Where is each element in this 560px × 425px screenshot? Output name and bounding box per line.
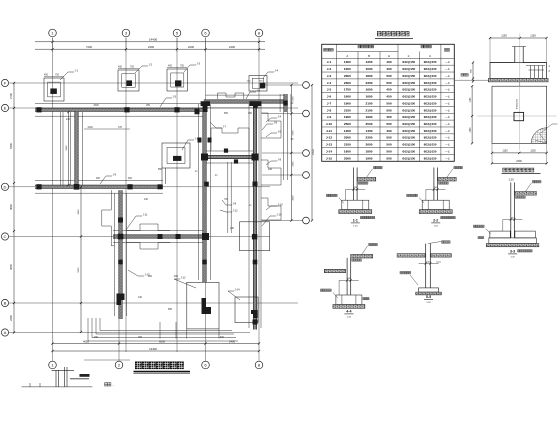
detail 5-5 wall upper [426,244,431,288]
svg-text:6000: 6000 [159,339,165,343]
svg-text:2700: 2700 [9,93,13,99]
isolated footing bottom right J-14 [235,297,258,323]
svg-text:Φ12@150: Φ12@150 [402,95,415,99]
strip footing outline S4 edges [35,180,163,193]
svg-text:2100: 2100 [366,101,373,105]
svg-text:J-9: J-9 [327,115,332,119]
axis bubble 4 bottom [202,361,210,369]
plan detail centerline horizontal [477,115,557,117]
svg-text:3600: 3600 [9,204,13,210]
label J-4 [263,69,279,79]
svg-text:700: 700 [224,198,229,201]
svg-text:3750: 3750 [293,130,295,136]
plan detail corner leader [541,124,558,133]
svg-text:Φ12@150: Φ12@150 [424,115,437,119]
svg-text:850: 850 [158,168,163,171]
detail 1-1 left leader label [339,198,344,204]
axis bubble D left [1,233,8,240]
strip footing S5 horizontal lower [113,235,207,238]
svg-text:J-13: J-13 [195,137,201,141]
column on V1-S4 junction [74,184,80,190]
strip footing S3 horizontal middle [203,155,257,158]
grid line axis B2 vertical x=119 bottom part [118,270,120,361]
detail 2-2 blinding hatched layer [419,210,452,214]
axis bubble 3 top [173,29,181,37]
svg-text:600: 600 [174,275,179,278]
svg-text:1150: 1150 [502,150,508,153]
svg-text:J-8: J-8 [278,158,282,162]
detail 5-5 blinding layer [416,292,442,295]
svg-text:450: 450 [248,112,253,115]
axis bubble 1 top [49,29,57,37]
strip footing V4 vertical far right short [284,94,287,112]
column on V2 junction S3 big [201,154,208,161]
plan small dimension texts [44,65,294,340]
strip footing outline V3 edges [249,104,261,328]
svg-text:Φ12@150: Φ12@150 [424,129,437,133]
svg-text:J-7: J-7 [223,125,227,129]
wall lines x=60 between S1 S4 [61,112,64,185]
label J-1 [60,69,79,81]
grid line axis 2 vertical x=126 [125,38,127,353]
svg-text:1:25: 1:25 [508,178,514,182]
svg-text:2500: 2500 [366,122,373,126]
svg-text:J-10: J-10 [278,203,284,207]
svg-text:2-2: 2-2 [433,219,438,223]
column on V3 y=262 [253,260,258,265]
svg-text:750: 750 [55,74,60,77]
svg-text:J-3: J-3 [327,74,332,78]
svg-text:J-11: J-11 [326,129,332,133]
svg-text:4950: 4950 [78,209,80,215]
svg-text:J-10: J-10 [277,213,283,217]
svg-text:2300: 2300 [516,160,522,163]
plan detail left dim [471,86,473,143]
column on S5 x=178 [176,234,181,239]
grid line axis 1 vertical x=52.5 [52,38,54,362]
grid line axis E horizontal y=303 [9,302,298,304]
svg-text:—①: —① [445,81,451,85]
svg-text:Φ12@150: Φ12@150 [402,88,415,92]
detail section blinding leader [463,79,488,81]
svg-text:J-14: J-14 [235,288,241,292]
svg-text:Φ12@150: Φ12@150 [424,74,437,78]
svg-text:14400: 14400 [149,38,158,42]
svg-text:J-3: J-3 [197,62,201,66]
detail 2-2 side dim line [425,189,427,200]
svg-text:J-14: J-14 [326,150,332,154]
strip footing outline V1 edges [71,112,83,185]
svg-text:Φ12@150: Φ12@150 [424,67,437,71]
top dimension line total 14400 [35,41,265,43]
plan detail bottom dims [492,152,547,154]
wall lines right edge below V4 [283,112,287,180]
label J-13 [182,137,200,151]
grid line axis C horizontal y=186.8 [9,186,270,188]
column on V3 junction S3 big [252,154,259,161]
svg-text:D: D [4,184,7,189]
svg-text:—①: —① [445,156,451,160]
svg-text:2000: 2000 [344,74,351,78]
svg-text:-: - [113,383,114,387]
isolated footing J-2 [118,70,139,91]
grid line axis B horizontal y=108 [9,107,298,109]
grid line axis A horizontal y=83 [9,82,298,84]
detail section ground line [455,79,463,81]
axis bubble 5 top [255,29,263,37]
svg-text:Φ12@150: Φ12@150 [402,115,415,119]
svg-text:2000: 2000 [344,136,351,140]
column on V5 y=262 [118,260,123,265]
svg-text:4050: 4050 [9,264,13,270]
svg-text:240: 240 [268,168,273,171]
svg-text:450: 450 [386,115,391,119]
svg-text:400: 400 [386,67,391,71]
axis bubble right r1 [303,82,310,89]
svg-text:2100: 2100 [344,108,351,112]
svg-text:1-1: 1-1 [353,219,358,223]
svg-text:—①: —① [445,74,451,78]
inner dim line left bay [68,112,70,185]
svg-text:Φ12@150: Φ12@150 [424,150,437,154]
svg-text:J-2: J-2 [327,67,332,71]
detail 3-3 left leader label [486,229,491,235]
detail 5-5 leaders [410,262,441,285]
grid line axis D horizontal y=236.5 [9,236,270,238]
svg-text:900: 900 [96,177,101,180]
label J-5 [160,95,177,108]
svg-text:500: 500 [386,136,391,140]
svg-text:240: 240 [144,198,149,201]
svg-text:1800: 1800 [366,150,373,154]
detail section column stem [512,47,526,63]
svg-text:Φ12@150: Φ12@150 [402,101,415,105]
svg-text:1900: 1900 [366,156,373,160]
svg-text:J-9: J-9 [113,173,117,177]
stepped outline above S2 [218,93,244,99]
label J-15 [128,270,150,277]
svg-text:J-12: J-12 [326,136,332,140]
svg-text:250: 250 [146,104,151,107]
strip footing outline S2 edges [206,95,285,108]
svg-text:Φ12@150: Φ12@150 [402,150,415,154]
detail 2-2 mid dimension [426,188,446,190]
svg-text:2400: 2400 [148,45,154,49]
svg-text:J-6: J-6 [327,95,332,99]
label J-6 [246,89,261,100]
plan detail centerline vertical [518,81,520,151]
wall lines x=228 between S3 S5 [228,162,231,233]
column on S4 right end x=160 [158,184,163,189]
svg-text:—①: —① [445,122,451,126]
svg-text:450: 450 [386,95,391,99]
svg-text:2300: 2300 [366,81,373,85]
right dimension line inner [290,85,292,221]
svg-text:Φ12@150: Φ12@150 [424,108,437,112]
label J-9 [100,173,117,185]
column on V3 y=236.7 [252,234,257,239]
svg-text:H: H [388,54,390,58]
column on V5 y=220 [118,218,123,223]
svg-text:J-5: J-5 [173,95,177,99]
detail 2-2 wall [434,168,438,201]
svg-text:1250: 1250 [470,127,472,133]
detail 2-2 bottom note [441,216,456,218]
detail 4-4 floor slab band [351,254,373,258]
svg-text:2400: 2400 [9,315,13,321]
svg-text:2300: 2300 [344,81,351,85]
svg-text:J-13: J-13 [326,143,332,147]
strip footing V1 vertical left [75,112,78,186]
axis bubble 2 top [122,29,130,37]
axis bubble C left [1,183,8,190]
column on S1 x=177 [174,107,179,112]
svg-text:850: 850 [224,112,229,115]
foundation table grid [322,44,455,161]
plan detail corner fan hatch [531,128,547,144]
strip footing outline V5 edges [115,193,127,316]
notes label [105,383,111,386]
svg-text:6600: 6600 [78,267,80,273]
svg-text:5400: 5400 [66,145,68,151]
stepped outline between V2 V3 above S3 [211,128,249,151]
column on S4 x=39 [36,184,41,189]
detail 3-3 footing stepped pad [489,231,536,243]
column junction S1-S2-V2 T-shape [201,101,210,112]
detail 4-4 mid dimension [339,279,359,281]
detail 1-1 bottom note [360,216,375,218]
svg-text:1900: 1900 [366,115,373,119]
svg-text:—①: —① [445,67,451,71]
column on V5-S5 junction [118,234,124,240]
svg-text:2200: 2200 [188,45,194,49]
label J-12 [174,276,196,289]
svg-text:J-4: J-4 [278,115,282,119]
svg-text:2400: 2400 [229,45,235,49]
detail 3-3 wall [511,182,515,238]
svg-text:Φ12@150: Φ12@150 [402,122,415,126]
detail 1-1 blinding hatched layer [339,210,372,214]
plan detail outer square [492,86,547,143]
svg-text:2250: 2250 [293,161,295,167]
svg-text:1900: 1900 [344,101,351,105]
detail 2-2 below-slab note [439,182,449,184]
detail 1-1 side dim line [345,189,347,200]
detail 4-4 slab leader label [362,246,368,255]
strip footing S2 horizontal upper right [204,100,286,103]
detail 4-4 blinding hatched layer [333,304,365,308]
svg-text:Φ12@150: Φ12@150 [402,81,415,85]
svg-text:Φ12@150: Φ12@150 [516,98,519,109]
detail 3-3 bottom note [518,250,533,252]
svg-text:—①: —① [445,150,451,154]
svg-text:1600: 1600 [366,95,373,99]
svg-text:1600: 1600 [344,150,351,154]
svg-text:370: 370 [118,126,123,129]
detail 3-3 floor slab band [514,192,536,196]
svg-text:5400: 5400 [9,143,13,149]
right dimension line outer total [311,85,313,221]
bottom-left detail bold label [70,374,90,379]
svg-text:1000: 1000 [366,67,373,71]
svg-text:—①: —① [445,108,451,112]
axis bubble A left [1,79,8,86]
svg-text:2500: 2500 [344,122,351,126]
svg-text:240: 240 [230,227,235,230]
svg-text:1400: 1400 [366,129,373,133]
detail 5-5 under-slab dimension [419,262,439,264]
detail 1-1 wall [354,168,358,201]
svg-text:750: 750 [180,65,185,68]
svg-text:3-3: 3-3 [510,250,515,254]
detail 2-2 floor slab band [438,177,457,181]
isolated footing J-1 [44,78,64,101]
svg-text:1200: 1200 [344,129,351,133]
label J-3 [184,62,201,73]
svg-text:—①: —① [445,115,451,119]
svg-text:—①: —① [445,95,451,99]
svg-text:J-11: J-11 [143,213,148,217]
svg-text:—①: —① [445,88,451,92]
svg-text:900: 900 [148,275,153,278]
detail 1-1 slab leader label [366,169,372,178]
svg-text:Φ12@150: Φ12@150 [424,122,437,126]
svg-text:—①: —① [445,136,451,140]
label J-8 [262,121,278,131]
svg-text:J-8: J-8 [233,202,237,206]
svg-text:2600: 2600 [366,143,373,147]
extension stubs under footings bottom [160,322,219,339]
svg-text:J-12: J-12 [233,209,239,213]
svg-text:Φ12@150: Φ12@150 [424,136,437,140]
detail section footing body [490,63,547,79]
detail section top dimension [490,37,547,39]
detail 5-5 footing pad [419,288,439,292]
stepped outline above S5 left [127,224,170,249]
isolated footing J-12 big lower [187,282,219,329]
svg-text:1800: 1800 [366,74,373,78]
svg-text:450: 450 [168,65,173,68]
isolated footing J-4 [249,76,267,92]
svg-text:J-7: J-7 [327,101,332,105]
label J-10 [262,213,282,227]
svg-text:1300: 1300 [344,60,351,64]
main title underline [134,372,191,374]
bottom dimension line total [53,350,260,352]
detail 4-4 left leader label [333,293,338,299]
main title foundation plan [135,362,184,370]
label J-2 [135,63,153,74]
svg-text:Φ12@150: Φ12@150 [402,143,415,147]
svg-text:1600: 1600 [344,95,351,99]
svg-text:500: 500 [386,81,391,85]
svg-text:J-15: J-15 [326,156,332,160]
svg-text:Φ12@150: Φ12@150 [402,156,415,160]
detail 2-2 footing pad [422,200,449,209]
column on V2 y=140 pair [198,138,212,143]
left dimension line vertical [13,83,15,333]
svg-text:1150: 1150 [530,34,536,38]
svg-text:500: 500 [386,101,391,105]
svg-text:4-4: 4-4 [346,310,351,314]
svg-text:Φ12@150: Φ12@150 [424,101,437,105]
svg-text:450: 450 [118,66,123,69]
strip footing outline S5 edges [113,231,206,243]
detail 4-4 side dim line [338,280,340,295]
svg-text:Φ12@150: Φ12@150 [402,108,415,112]
svg-text:1900: 1900 [344,115,351,119]
plan detail title [503,168,535,172]
bottom-left wall detail lines [52,367,75,387]
svg-text:Φ12@150: Φ12@150 [424,88,437,92]
column big L on V5 bottom [117,294,125,306]
column on V3 y=184 [253,182,258,187]
label J-12b mid [220,209,238,213]
label J-4 right [266,115,282,123]
svg-text:B: B [4,301,7,306]
small dimension marks near footings [44,68,187,360]
svg-text:500: 500 [386,156,391,160]
detail section rebar marks [526,66,545,79]
label J-8 right [266,158,282,166]
axis bubble 1 bottom [49,361,57,369]
svg-text:Φ12@150: Φ12@150 [424,95,437,99]
table title bar [377,31,409,36]
label J-8 mid [222,200,237,206]
svg-text:2000: 2000 [344,156,351,160]
detail section blinding layer hatched [488,79,548,82]
detail 4-4 bottom note [363,298,369,300]
svg-text:400: 400 [386,60,391,64]
table data rows [326,60,451,160]
column on V2 y=262 [202,260,207,265]
svg-text:Φ12@150: Φ12@150 [402,129,415,133]
axis bubble right r5 [303,217,310,224]
detail 4-4 below-slab note [352,259,362,261]
svg-text:J-5: J-5 [327,88,332,92]
detail section left dim [472,63,474,82]
grid line axis 5 vertical x=259 [258,38,260,362]
strip stub V7 under footing J-13 [162,168,166,184]
isolated footing J-13 middle [162,143,190,168]
svg-text:A: A [346,54,348,58]
detail 2-2 slab leader label [447,169,453,178]
svg-text:J-8: J-8 [327,108,332,112]
axis bubble 2 bottom [115,361,123,369]
svg-text:2400: 2400 [229,339,235,343]
isolated footing J-10 straddling V3 [240,222,270,251]
top dimension extension lines [52,38,54,52]
svg-text:4050: 4050 [83,339,89,343]
label J-6 right [266,130,282,138]
label J-11 [126,213,148,231]
detail 3-3 blinding hatched layer [486,244,538,247]
svg-text:500: 500 [386,74,391,78]
svg-text:750: 750 [130,66,135,69]
svg-text:1600: 1600 [366,88,373,92]
svg-text:—①: —① [445,129,451,133]
svg-text:Φ12@150: Φ12@150 [424,143,437,147]
strip footing S4 horizontal left-middle [35,185,163,188]
svg-text:1150: 1150 [501,34,507,38]
axis bubble right r4 [303,172,310,179]
svg-text:J-10: J-10 [326,122,332,126]
column on V2 y=184 [204,182,209,187]
svg-text:J-1: J-1 [75,69,79,73]
svg-text:J-6: J-6 [278,130,282,134]
svg-text:—①: —① [445,60,451,64]
svg-text:Φ12@150: Φ12@150 [424,81,437,85]
